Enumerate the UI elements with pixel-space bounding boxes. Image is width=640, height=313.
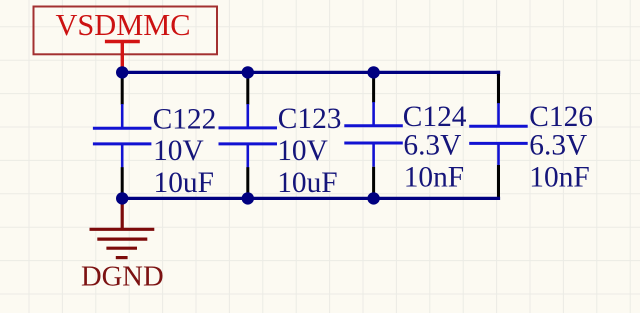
- node junction top C124: [367, 66, 379, 78]
- ground bar 4: [116, 256, 128, 259]
- svg-text:C126: C126: [529, 101, 593, 133]
- ground bar 1: [90, 228, 155, 231]
- node junction top C123: [242, 66, 254, 78]
- svg-text:10uF: 10uF: [154, 167, 214, 199]
- wire top bus: [122, 71, 500, 74]
- svg-text:C124: C124: [403, 101, 467, 133]
- svg-text:10V: 10V: [153, 135, 204, 167]
- svg-text:DGND: DGND: [81, 262, 164, 293]
- node junction top C122: [116, 66, 128, 78]
- svg-text:C123: C123: [278, 103, 342, 135]
- power symbol stem: [121, 42, 124, 70]
- capacitor C123: [219, 104, 278, 168]
- svg-text:10uF: 10uF: [277, 167, 337, 199]
- node junction bottom C122: [116, 192, 128, 204]
- wire C126 lower black segment: [497, 165, 500, 198]
- svg-text:10V: 10V: [277, 135, 328, 167]
- wire C123 lower black segment: [246, 167, 249, 198]
- wire C124 lower black segment: [372, 167, 375, 199]
- node junction bottom C123: [242, 192, 254, 204]
- svg-text:VSDMMC: VSDMMC: [55, 8, 190, 42]
- wire top-right corner down: [497, 71, 500, 76]
- svg-text:10nF: 10nF: [404, 161, 464, 193]
- ground bar 3: [106, 247, 137, 250]
- wire C124 upper black segment: [372, 72, 375, 102]
- capacitor C126: [469, 103, 528, 165]
- wire C123 upper black segment: [246, 72, 249, 104]
- wire bottom bus: [122, 197, 500, 200]
- wire C122 upper black segment: [121, 72, 124, 104]
- svg-text:6.3V: 6.3V: [403, 130, 461, 162]
- wire C122 lower black segment: [121, 167, 124, 198]
- svg-text:C122: C122: [153, 104, 217, 136]
- ground stem: [121, 198, 124, 229]
- ground bar 2: [97, 238, 147, 241]
- power symbol bar: [105, 40, 140, 43]
- capacitor C122: [93, 104, 151, 168]
- svg-text:6.3V: 6.3V: [529, 130, 587, 162]
- capacitor C124: [344, 102, 403, 167]
- power port VSDMMC box: [34, 7, 218, 55]
- wire C126 upper black segment: [497, 74, 500, 104]
- svg-text:10nF: 10nF: [529, 161, 589, 193]
- node junction bottom C124: [367, 192, 379, 204]
